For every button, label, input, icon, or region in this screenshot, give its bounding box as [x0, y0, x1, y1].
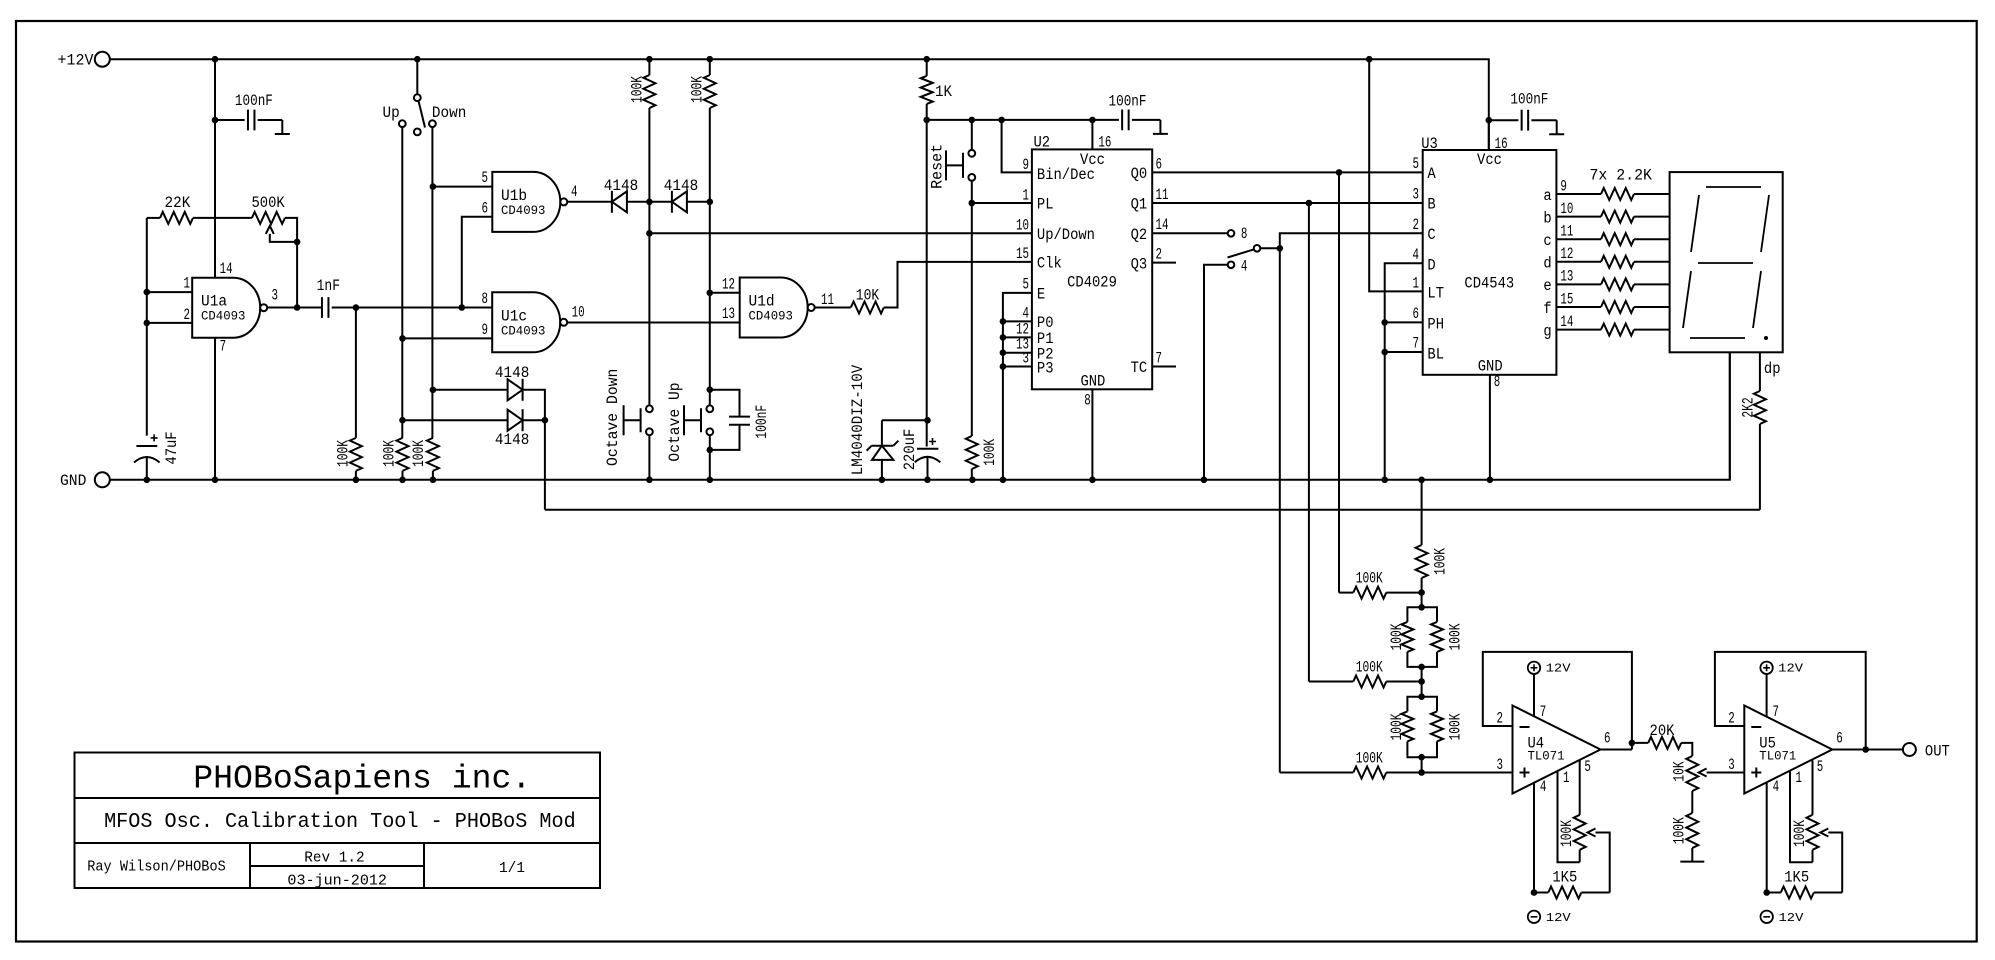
svg-text:Ray Wilson/PHOBoS: Ray Wilson/PHOBoS — [87, 860, 226, 876]
node GND/U1a pin7 junction — [212, 477, 219, 484]
svg-text:100nF: 100nF — [1109, 93, 1147, 111]
svg-text:Q1: Q1 — [1131, 196, 1148, 214]
wire U1b output — [567, 201, 612, 203]
terminal OUT — [1903, 743, 1916, 756]
resistor R14 100K (from GND) — [1421, 480, 1423, 545]
wire reset btn to PL — [971, 181, 973, 203]
wire Up line — [401, 127, 403, 438]
wire U4 pin7 — [1533, 674, 1535, 716]
node PH junction — [1381, 319, 1388, 326]
wire 1nF to U1c pin8 — [332, 307, 493, 309]
node C sum junction — [1418, 769, 1425, 776]
svg-text:100K: 100K — [1447, 713, 1465, 740]
svg-text:OUT: OUT — [1925, 742, 1950, 760]
switch SW1 lever — [419, 101, 426, 128]
switch SW1 Down contact — [429, 120, 436, 127]
seg middle — [1698, 262, 1753, 264]
svg-text:BL: BL — [1427, 345, 1444, 363]
svg-text:TL071: TL071 — [1528, 749, 1565, 764]
GND terminal — [95, 472, 110, 487]
svg-text:47uF: 47uF — [163, 431, 181, 464]
svg-text:1K: 1K — [935, 83, 952, 101]
switch SW1 center-off contact — [414, 129, 421, 136]
node pair1 bottom — [1418, 664, 1425, 671]
resistor R20 1K5 (U4) — [1534, 892, 1548, 894]
node P tie junction y=352.7 — [1000, 349, 1007, 356]
node +12V/octave-up pullup junction — [707, 56, 714, 63]
node bin/dec junction — [998, 117, 1005, 124]
wire U5 pin2 feedback — [1715, 652, 1866, 750]
node BL junction — [1381, 349, 1388, 356]
IC U2 CD4029 — [1032, 149, 1152, 389]
zener U6 LM4040DIZ-10V — [882, 419, 928, 421]
svg-text:7: 7 — [1413, 335, 1420, 353]
svg-text:e: e — [1543, 277, 1551, 295]
node A sum junction — [1418, 589, 1425, 596]
node GND/100K R5 junction — [430, 477, 437, 484]
resistor R21 20K — [1632, 742, 1648, 744]
ground (C7) — [1549, 120, 1564, 134]
wire D to GND vertical — [1385, 263, 1423, 480]
svg-text:PL: PL — [1037, 196, 1054, 214]
wire U3 pin8 GND stub — [1489, 375, 1491, 480]
resistor R3 100K (osc to GND) — [355, 308, 357, 438]
node pin2 junction — [144, 320, 151, 327]
svg-text:13: 13 — [1560, 268, 1573, 286]
svg-text:LT: LT — [1427, 285, 1444, 303]
node GND/100K R3 junction — [353, 477, 360, 484]
node U5 pin4/1K5 junction — [1763, 889, 1770, 896]
wire +12V rail — [110, 59, 1489, 150]
capacitor C5 100nF (U2 supply) — [1122, 110, 1129, 131]
svg-text:2: 2 — [1728, 710, 1735, 728]
svg-text:Up/Down: Up/Down — [1037, 226, 1095, 244]
node PL junction — [969, 200, 976, 207]
node GND/octave up btn junction — [707, 477, 714, 484]
ground (divider) — [1680, 861, 1704, 863]
resistor R9 1K — [926, 59, 928, 76]
wire U1a pin2 — [147, 322, 192, 324]
op-amp U1b (NAND CD4093) — [492, 172, 560, 232]
svg-text:6: 6 — [1413, 305, 1420, 323]
wire B net vertical — [1308, 203, 1310, 682]
svg-text:PH: PH — [1427, 316, 1444, 334]
op-amp U1d (NAND CD4093) — [740, 278, 808, 338]
wire Q1 to U3 B — [1152, 202, 1423, 204]
svg-text:GND: GND — [1080, 373, 1105, 391]
wire octave-up line down — [709, 202, 711, 406]
wire U2 P pin stub y=352.7 — [1003, 352, 1032, 354]
seg top — [1706, 186, 1761, 188]
svg-text:CD4093: CD4093 — [749, 309, 793, 324]
resistor R16 100K (B net) — [1309, 681, 1353, 683]
svg-text:100K: 100K — [1388, 623, 1406, 650]
wire U5 pin4 to -12V — [1766, 783, 1768, 893]
node pair2 bottom — [1418, 754, 1425, 761]
svg-text:100K: 100K — [335, 440, 353, 467]
node A branch junction — [1336, 169, 1343, 176]
svg-text:5: 5 — [1584, 758, 1591, 776]
wire U1b pin6 from output node — [462, 217, 493, 308]
node U1a output/500K junction — [294, 304, 301, 311]
wire diode return to dp rail — [544, 420, 546, 510]
wire sum to U4 pin3 — [1422, 772, 1513, 774]
push button SW4 Reset — [971, 120, 973, 150]
svg-text:16: 16 — [1098, 134, 1111, 152]
svg-text:Up: Up — [383, 104, 400, 122]
svg-text:10: 10 — [1016, 217, 1029, 235]
seg top-left — [1691, 195, 1699, 252]
diode D4 4148 (octave up) — [403, 419, 508, 421]
node GND/LM4040 junction — [879, 477, 886, 484]
svg-text:9: 9 — [482, 321, 489, 339]
svg-text:1: 1 — [1563, 769, 1570, 787]
wire U2 Q3 stub — [1152, 262, 1176, 264]
svg-text:Down: Down — [432, 104, 466, 122]
svg-text:8: 8 — [1241, 225, 1248, 243]
wire 20K to 10K pot — [1681, 743, 1692, 756]
wire BL stub — [1385, 351, 1423, 353]
svg-text:2K2: 2K2 — [1740, 397, 1758, 417]
svg-text:Vcc: Vcc — [1477, 151, 1502, 169]
wire Bin/Dec from Vcc line — [1002, 120, 1032, 172]
node GND/U3 pin8 junction — [1487, 477, 1494, 484]
svg-text:100K: 100K — [1447, 623, 1465, 650]
diode D3 4148 (octave down) — [433, 389, 508, 391]
svg-text:9: 9 — [1023, 156, 1030, 174]
+12V terminal — [95, 52, 110, 67]
wire LT to +12V — [1369, 59, 1423, 291]
svg-text:Reset: Reset — [929, 144, 947, 189]
wire Up/Down to U2 pin10 — [649, 232, 1032, 234]
resistor R25 1K5 (U5) — [1767, 892, 1781, 894]
svg-text:1/1: 1/1 — [499, 861, 525, 877]
svg-text:Q3: Q3 — [1131, 255, 1148, 273]
wire GND rail — [110, 352, 1730, 480]
svg-text:8: 8 — [1494, 373, 1501, 391]
node up-down wire junction — [646, 230, 653, 237]
wire U1a Vcc rail — [214, 59, 216, 279]
node U4 out/20K junction — [1629, 740, 1636, 747]
node +12V/octave-down pullup junction — [646, 56, 653, 63]
svg-text:1nF: 1nF — [317, 277, 340, 295]
svg-text:12V: 12V — [1778, 662, 1804, 676]
resistor R4 100K (Up line) — [397, 438, 409, 471]
wire U2 P pin stub y=337.4 — [1003, 336, 1032, 338]
svg-text:3: 3 — [272, 286, 279, 304]
node P tie junction y=321.4 — [1000, 318, 1007, 325]
power -12V (U5) — [1761, 911, 1773, 923]
svg-text:100K: 100K — [628, 76, 646, 103]
svg-text:2: 2 — [1413, 216, 1420, 234]
svg-text:10: 10 — [1560, 200, 1573, 218]
svg-text:03-jun-2012: 03-jun-2012 — [287, 873, 387, 889]
svg-text:1: 1 — [1796, 769, 1803, 787]
wire U5 wiper to 1K5 — [1828, 833, 1842, 893]
push button SW3 Octave Up — [706, 405, 713, 412]
node P tie junction y=337.4 — [1000, 334, 1007, 341]
node GND/U2 E/P pins junction — [1000, 477, 1007, 484]
svg-text:4: 4 — [571, 183, 578, 201]
svg-text:100K: 100K — [981, 439, 999, 466]
wire C net vertical and to U3 C — [1280, 233, 1423, 772]
svg-text:5: 5 — [1023, 276, 1030, 294]
svg-text:c: c — [1543, 232, 1551, 250]
wire U4 wiper to 1K5 — [1596, 833, 1610, 893]
node GND/100K R4 junction — [399, 477, 406, 484]
diode D1 4148 — [612, 191, 627, 212]
display DS1 7-segment — [1670, 172, 1783, 352]
IC U3 CD4543 — [1423, 150, 1557, 375]
seg bottom-left — [1683, 271, 1691, 328]
wire 10K wiper to U5 pin3 — [1707, 772, 1745, 774]
wire Down line — [431, 127, 433, 438]
resistor R14 2.2K (segment d) — [1556, 261, 1601, 263]
capacitor C1 47uF — [136, 445, 157, 447]
ground (C5) — [1153, 120, 1168, 134]
svg-text:Clk: Clk — [1037, 255, 1062, 273]
wire U2 Vcc line — [927, 119, 1119, 121]
svg-text:dp: dp — [1764, 360, 1781, 378]
svg-text:B: B — [1427, 196, 1435, 214]
svg-text:4: 4 — [1540, 778, 1547, 796]
resistor R8 100K (octave up pullup) — [709, 59, 711, 75]
svg-text:P3: P3 — [1037, 359, 1054, 377]
node pair1 top — [1418, 604, 1425, 611]
svg-text:500K: 500K — [252, 194, 286, 212]
node U1d pin12 junction — [707, 290, 714, 297]
svg-text:4: 4 — [1413, 246, 1420, 264]
push button SW2 Octave Down — [646, 405, 653, 412]
svg-text:5: 5 — [482, 169, 489, 187]
wire SW2 to GND — [648, 435, 650, 480]
svg-text:7: 7 — [1773, 703, 1780, 721]
svg-text:CD4093: CD4093 — [201, 309, 245, 324]
svg-text:100nF: 100nF — [235, 92, 273, 110]
resistor R15 2.2K (segment e) — [1556, 283, 1601, 285]
svg-text:7: 7 — [1156, 349, 1163, 367]
node reset junction — [969, 117, 976, 124]
wire Q0 to U3 A — [1152, 171, 1423, 173]
ground (C2) — [275, 120, 290, 134]
svg-text:8: 8 — [1084, 391, 1091, 409]
svg-text:6: 6 — [1836, 730, 1843, 748]
switch SW1 toggle common — [416, 59, 418, 94]
svg-text:A: A — [1427, 165, 1436, 183]
node C4 junction top — [707, 386, 714, 393]
switch SW5 contact 8 — [1228, 230, 1235, 237]
node D2/octave-up junction — [707, 199, 714, 206]
svg-text:12V: 12V — [1546, 911, 1572, 925]
wire A net vertical — [1338, 172, 1340, 592]
node Down/U1b pin5 junction — [430, 183, 437, 190]
wire SW3 to GND — [709, 435, 711, 480]
svg-text:1K5: 1K5 — [1552, 868, 1577, 886]
svg-text:100K: 100K — [1356, 749, 1383, 767]
resistor R23 100K (to GND) — [1691, 791, 1693, 813]
switch SW1 Up contact — [399, 120, 406, 127]
svg-text:Rev 1.2: Rev 1.2 — [304, 850, 364, 866]
op-amp U4 TL071 — [1513, 706, 1601, 794]
svg-text:CD4029: CD4029 — [1067, 273, 1117, 291]
resistor R15 100K (A net) — [1339, 592, 1353, 594]
power -12V (U4) — [1528, 911, 1540, 923]
node LM4040/220uF junction — [924, 417, 931, 424]
svg-text:12V: 12V — [1779, 911, 1805, 925]
svg-text:8: 8 — [482, 290, 489, 308]
svg-text:7: 7 — [1540, 703, 1547, 721]
wire PH stub — [1385, 321, 1423, 323]
node GND/U3 D/PH/BL junction — [1381, 477, 1388, 484]
svg-text:14: 14 — [1156, 216, 1169, 234]
svg-text:MFOS Osc. Calibration Tool - P: MFOS Osc. Calibration Tool - PHOBoS Mod — [104, 811, 576, 834]
wire SW5 common to C line — [1260, 247, 1280, 249]
svg-text:7x 2.2K: 7x 2.2K — [1589, 166, 1652, 184]
svg-text:Bin/Dec: Bin/Dec — [1037, 166, 1095, 184]
resistor R5 100K (Down line) — [427, 438, 439, 471]
svg-text:12V: 12V — [1546, 662, 1572, 676]
switch SW5 contact 4 — [1228, 262, 1235, 269]
wire 1K/220uF vertical — [926, 120, 928, 447]
node +12V/1K junction — [923, 56, 930, 63]
wire display common to GND — [1729, 352, 1731, 480]
svg-text:U1c: U1c — [501, 307, 527, 325]
svg-text:100K: 100K — [1791, 820, 1809, 847]
svg-text:3: 3 — [1728, 756, 1735, 774]
wire reset line down to 100K — [971, 203, 973, 436]
node U3 Vcc/100nF junction — [1486, 117, 1493, 124]
svg-text:11: 11 — [1560, 223, 1573, 241]
node 1K/Vcc-line junction — [923, 117, 930, 124]
node P tie junction y=366.5 — [1000, 363, 1007, 370]
node D1/octave-down junction — [646, 199, 653, 206]
potentiometer R19 100K (U4 offset) — [1579, 761, 1581, 815]
svg-text:4: 4 — [1241, 258, 1248, 276]
wire U1d pin12 — [710, 292, 740, 294]
resistor R11 2.2K (segment a) — [1556, 193, 1601, 195]
svg-text:6: 6 — [1156, 156, 1163, 174]
power +12V (U4) — [1528, 662, 1540, 674]
resistor R10 100K (reset pulldown) — [966, 436, 978, 469]
svg-text:TL071: TL071 — [1759, 749, 1796, 764]
svg-text:CD4093: CD4093 — [501, 324, 545, 339]
node B branch junction — [1306, 200, 1313, 207]
svg-text:4148: 4148 — [495, 364, 529, 382]
svg-text:100K: 100K — [1356, 658, 1383, 676]
svg-text:1: 1 — [184, 275, 191, 293]
node U5 out junction — [1862, 746, 1869, 753]
resistor R6 10K — [815, 307, 851, 309]
wire U2 P pin stub y=366.5 — [1003, 366, 1032, 368]
wire Q2 to switch contact 8 — [1152, 232, 1227, 234]
node B sum junction — [1418, 678, 1425, 685]
svg-text:CD4543: CD4543 — [1464, 275, 1514, 293]
svg-text:CD4093: CD4093 — [501, 203, 545, 218]
svg-text:22K: 22K — [165, 194, 191, 212]
svg-text:1: 1 — [1023, 186, 1030, 204]
svg-text:3: 3 — [1413, 186, 1420, 204]
svg-text:Octave Down: Octave Down — [604, 369, 622, 466]
svg-text:4: 4 — [1773, 778, 1780, 796]
potentiometer R2 500K — [252, 212, 285, 224]
wire U2 P pin stub y=321.4 — [1003, 320, 1032, 322]
node Down/diode junction — [430, 387, 437, 394]
svg-text:100nF: 100nF — [1510, 91, 1548, 109]
svg-text:6: 6 — [1604, 730, 1611, 748]
potentiometer R22 10K — [1686, 756, 1698, 791]
node +12V/LT junction — [1366, 56, 1373, 63]
node Up/U1c pin9 junction — [399, 335, 406, 342]
wire U2 pin16 stub — [1091, 120, 1093, 149]
node 1nF/100K junction — [353, 304, 360, 311]
wire 47uF to GND — [146, 457, 148, 480]
node U1b pin6 junction — [459, 304, 466, 311]
wire display dp — [1759, 352, 1761, 391]
svg-text:D: D — [1427, 256, 1435, 274]
svg-text:f: f — [1543, 300, 1551, 318]
wire U5 pin7 — [1766, 674, 1768, 716]
wire octave-down line down — [648, 202, 650, 406]
switch SW5 common — [1254, 245, 1261, 252]
wire U1c pin9 — [403, 337, 493, 339]
svg-text:15: 15 — [1016, 245, 1029, 263]
svg-text:g: g — [1543, 322, 1551, 340]
svg-text:100nF: 100nF — [753, 405, 771, 439]
svg-text:1: 1 — [1413, 274, 1420, 292]
svg-text:Q2: Q2 — [1131, 226, 1148, 244]
node D3/D4 junction — [542, 417, 549, 424]
svg-text:U3: U3 — [1421, 135, 1438, 153]
svg-text:12: 12 — [1560, 245, 1573, 263]
wire contact4 to GND — [1204, 265, 1228, 480]
wire U4 output — [1601, 749, 1632, 751]
svg-text:5: 5 — [1817, 758, 1824, 776]
node GND/47uF junction — [144, 477, 151, 484]
switch SW5 lever — [1228, 249, 1254, 257]
node SW5/C junction — [1277, 245, 1284, 252]
node GND/switch pos4 junction — [1201, 477, 1208, 484]
capacitor C7 100nF (U3 supply) — [1489, 119, 1519, 121]
op-amp U5 TL071 — [1744, 706, 1832, 794]
node 500K wiper junction — [294, 239, 301, 246]
wire U1a pin7 to GND — [214, 338, 216, 480]
node GND/100K R10 junction — [969, 477, 976, 484]
wire dp/diode return rail — [545, 509, 1760, 511]
diode D2 4148 — [672, 191, 687, 212]
svg-text:6: 6 — [482, 200, 489, 218]
node GND/octave down btn junction — [646, 477, 653, 484]
power +12V (U5) — [1760, 662, 1772, 674]
svg-text:5: 5 — [1413, 155, 1420, 173]
svg-text:3: 3 — [1497, 756, 1504, 774]
wire U3 pin16 stub — [1488, 120, 1490, 150]
svg-text:TC: TC — [1131, 359, 1148, 377]
svg-text:100K: 100K — [410, 440, 428, 467]
wire U4 pin4 to -12V — [1533, 783, 1535, 893]
wire U4 pin2 feedback — [1483, 652, 1632, 750]
svg-text:4148: 4148 — [495, 431, 529, 449]
op-amp U1a (NAND CD4093) — [192, 278, 260, 338]
svg-text:U1d: U1d — [749, 292, 775, 310]
node GND/220uF junction — [924, 477, 931, 484]
svg-text:1K5: 1K5 — [1784, 868, 1809, 886]
resistor R12 2.2K (segment b) — [1556, 216, 1601, 218]
resistor R16 2.2K (segment f) — [1556, 306, 1601, 308]
svg-text:11: 11 — [1156, 186, 1169, 204]
wire U1a feedback left vertical — [146, 218, 148, 436]
svg-text:10K: 10K — [856, 287, 880, 305]
svg-text:GND: GND — [60, 472, 86, 490]
